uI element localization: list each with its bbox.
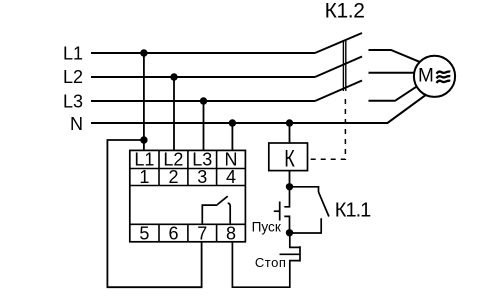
svg-text:L1: L1 (63, 43, 83, 63)
stop button bridge (299, 246, 301, 261)
svg-text:Пуск: Пуск (252, 220, 282, 235)
terminal numbers 1 2 3 4 (139, 167, 236, 187)
start button wire from node A (284, 187, 289, 207)
motor wave symbol (437, 71, 451, 82)
wire N node to coil K (289, 123, 291, 143)
internal relay contact blade (217, 196, 227, 204)
bus N wire (runs right then angles up to motor) (91, 93, 428, 123)
relay box top terminal strip lines (130, 168, 246, 170)
wire L3 bus to terminal 3 (203, 101, 205, 150)
terminal strip dividers (159, 150, 217, 241)
node A below coil (286, 183, 293, 190)
wire N bus to terminal 4 (231, 123, 233, 150)
node on L3 bus (200, 97, 207, 104)
svg-text:6: 6 (168, 223, 178, 243)
wire L2 bus to terminal 2 (173, 77, 175, 150)
dashed mechanical link coil to K1.2 (311, 94, 346, 159)
bus L3 wire (91, 100, 315, 102)
motor M circle (414, 56, 455, 97)
contactor K1.2 linkage bars (342, 40, 344, 91)
svg-text:К1.1: К1.1 (335, 199, 371, 221)
node on L1 bus (140, 49, 147, 56)
node on L2 bus (170, 73, 177, 80)
terminal labels L1 L2 L3 N (134, 150, 237, 170)
contactor coil K box (269, 143, 308, 171)
svg-text:5: 5 (139, 223, 149, 243)
svg-text:M: M (418, 65, 434, 86)
node on N bus at coil drop (286, 119, 293, 126)
internal relay contact fixed terminal to 8 (228, 203, 231, 224)
svg-text:4: 4 (226, 167, 236, 187)
stop button lower contact and wire to terminal 8 (232, 242, 300, 287)
svg-text:N: N (70, 114, 83, 134)
wire L1 bus to terminal 1 (143, 53, 145, 150)
svg-text:2: 2 (168, 167, 178, 187)
auxiliary contact K1.1 blade (319, 192, 329, 217)
contactor K1.2 blade phase L3 (315, 81, 362, 102)
motor lead phase L3 (369, 85, 419, 101)
contactor K1.2 blade phase L2 (315, 57, 362, 78)
auxiliary contact K1.1 fixed terminal (290, 218, 322, 233)
internal relay contact wire from terminal 7 (202, 205, 217, 224)
svg-text:Стоп: Стоп (255, 255, 287, 270)
svg-text:L2: L2 (63, 67, 83, 87)
start button lower contact (284, 216, 289, 232)
terminal numbers 5 6 7 8 (139, 223, 236, 243)
svg-text:1: 1 (139, 167, 149, 187)
stop button wire from node B (290, 233, 300, 248)
motor lead phase L2 (369, 72, 421, 74)
motor lead phase L1 (369, 50, 422, 62)
contactor K1.2 blade phase L1 (315, 33, 362, 53)
stop button actuator rod (280, 253, 301, 255)
svg-text:L3: L3 (63, 91, 83, 111)
auxiliary contact K1.1 top branch (290, 187, 319, 192)
svg-text:К1.2: К1.2 (325, 0, 365, 23)
node on N bus at terminal 4 drop (229, 119, 236, 126)
relay box bottom terminal strip line (130, 223, 246, 225)
svg-text:7: 7 (197, 223, 207, 243)
wire branch left loop to terminal 7 (107, 140, 201, 287)
bus L1 wire (91, 52, 315, 54)
start button bridge (279, 202, 281, 221)
svg-text:8: 8 (226, 223, 236, 243)
wire coil K to node A (289, 171, 291, 187)
svg-text:К: К (284, 144, 295, 172)
svg-text:3: 3 (197, 167, 207, 187)
start button actuator rod (274, 210, 280, 212)
node branch below L1 (140, 136, 147, 143)
bus L2 wire (91, 76, 315, 78)
node B below start button (286, 229, 293, 236)
relay box outline (130, 150, 246, 241)
